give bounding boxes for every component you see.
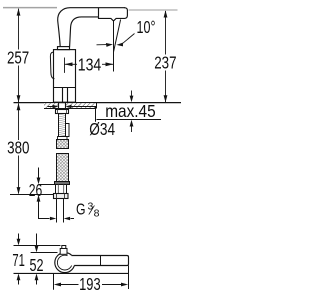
arrowheads xyxy=(17,8,168,286)
26 bottom arrow xyxy=(37,195,41,202)
svg-text:52: 52 xyxy=(30,255,44,275)
inner cartridge line left xyxy=(62,88,64,103)
deck right edge xyxy=(96,103,98,109)
dim 380 line lower xyxy=(18,156,20,194)
shank edge right through deck xyxy=(65,103,67,110)
body ring inner circle xyxy=(57,255,72,270)
svg-text:8: 8 xyxy=(94,208,100,220)
dim 26 upper arrow stem xyxy=(38,168,40,179)
dia34 left arrow xyxy=(53,105,59,109)
dia34 leader right xyxy=(71,107,96,122)
dim 71 lower arrow stem xyxy=(18,280,20,285)
spout joint divider xyxy=(98,8,100,17)
max45 lower line xyxy=(97,119,162,121)
svg-text:10°: 10° xyxy=(137,17,156,37)
193 right arrow xyxy=(121,283,128,287)
134 right arrow xyxy=(106,62,114,66)
G thread left arrow xyxy=(50,217,56,220)
134 left arrow xyxy=(65,62,73,66)
neck flange xyxy=(58,47,70,50)
10 degree left arrow tail xyxy=(97,44,108,46)
G thread ext line right xyxy=(63,199,65,223)
10 degree leader line xyxy=(122,34,135,45)
dim 71 upper arrow stem xyxy=(18,234,20,240)
deck slab left hatched xyxy=(44,103,59,108)
dim 26 lower ext line xyxy=(10,194,54,196)
dim 52 lower arrow stem xyxy=(36,280,38,285)
10deg left arc arrow xyxy=(106,43,113,47)
G thread ext line left xyxy=(56,199,58,223)
extension line 237 from outlet (gray) xyxy=(129,9,178,11)
threaded shank xyxy=(59,114,66,137)
max45 lower arrow stem xyxy=(131,126,133,132)
body ring outer circle xyxy=(55,253,75,273)
spray head outline xyxy=(99,8,128,21)
svg-text:G: G xyxy=(76,202,86,219)
svg-text:134: 134 xyxy=(78,55,102,75)
10 degree vertical reference line xyxy=(113,21,115,72)
shank-hose connector xyxy=(58,137,68,140)
deck bottom edge line xyxy=(44,108,96,110)
svg-text:Ø34: Ø34 xyxy=(89,119,115,139)
52 top arrow xyxy=(35,246,39,253)
dim 237 line upper xyxy=(165,11,167,55)
257 bottom arrow xyxy=(17,95,21,102)
max45 bottom arrow xyxy=(130,120,134,127)
svg-text:237: 237 xyxy=(154,53,176,73)
svg-text:26: 26 xyxy=(29,180,43,200)
dia34 leader left tail xyxy=(48,106,54,108)
52 bottom arrow xyxy=(35,274,39,281)
G thread right arrow xyxy=(64,217,70,220)
common bottom ext line xyxy=(14,272,129,274)
spout bar xyxy=(68,256,129,266)
dim 71 ext line xyxy=(14,245,61,247)
71 top arrow xyxy=(17,239,21,246)
dim 52 ext line xyxy=(31,252,58,254)
hose collar xyxy=(55,182,70,185)
dim 380 line upper xyxy=(18,103,20,140)
dim 52 upper arrow stem xyxy=(36,234,38,247)
257 top arrow xyxy=(17,8,21,15)
body xyxy=(54,50,76,103)
dim 193 left ext line xyxy=(53,273,55,289)
380 bottom arrow xyxy=(17,187,21,194)
faucet outer bend profile xyxy=(58,8,125,47)
71 bottom arrow xyxy=(17,274,21,281)
lever handle side view xyxy=(50,52,54,79)
svg-text:193: 193 xyxy=(79,274,101,294)
dimension texts xyxy=(7,17,177,294)
dim 257 line lower xyxy=(18,66,20,103)
nut xyxy=(54,194,69,199)
dim 237 line lower xyxy=(165,71,167,103)
deck slab right hatched xyxy=(66,103,96,108)
max45 top arrow xyxy=(130,96,134,103)
nipple G3/8 xyxy=(56,185,67,194)
G thread right arrow tail xyxy=(71,218,75,220)
max45 upper arrow stem xyxy=(131,91,133,97)
dim 26 upper ext line xyxy=(39,184,56,186)
faucet inner bend profile xyxy=(70,17,99,47)
dim 134 line right xyxy=(102,63,114,65)
dim 257 line upper xyxy=(18,9,20,50)
svg-text:380: 380 xyxy=(7,138,30,158)
dim 134 line left xyxy=(65,63,78,65)
lever tab xyxy=(60,249,67,255)
193 left arrow xyxy=(54,283,61,287)
svg-text:71: 71 xyxy=(12,250,25,270)
inner cartridge line right xyxy=(67,88,69,103)
dim 193 right ext line xyxy=(128,266,130,290)
braided hose lower xyxy=(57,154,69,182)
380 top arrow xyxy=(17,103,21,110)
extension line 257 top (gray) xyxy=(3,7,57,9)
spout bar divider xyxy=(100,256,102,266)
dia34 right arrow xyxy=(66,105,72,109)
237 bottom arrow xyxy=(164,95,168,102)
shank edge left through deck xyxy=(58,103,60,110)
dim 26 lower arrow stem + elbow xyxy=(39,202,50,219)
dim 193 line left segment xyxy=(61,284,79,286)
237 top arrow xyxy=(164,10,168,17)
10deg right arc arrow xyxy=(116,43,123,47)
deck top line xyxy=(14,102,182,104)
side tube xyxy=(66,124,70,137)
locknut xyxy=(56,110,69,114)
lever nub xyxy=(62,246,66,249)
10 degree slanted axis line xyxy=(114,20,121,53)
svg-text:max.45: max.45 xyxy=(105,101,156,121)
svg-text:257: 257 xyxy=(7,48,29,68)
26 top arrow xyxy=(37,178,41,185)
dim 134 tick line xyxy=(64,58,66,73)
braided hose upper xyxy=(57,140,69,149)
dim 193 line right segment xyxy=(102,284,122,286)
body seam xyxy=(54,87,76,89)
